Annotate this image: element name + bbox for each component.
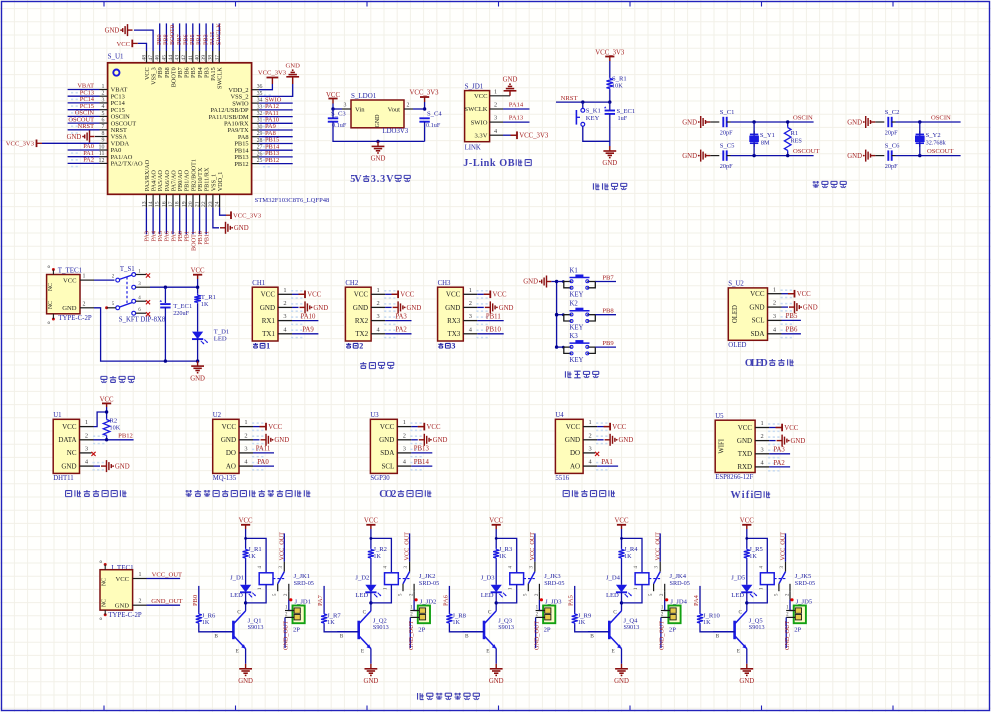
svg-text:2: 2 [773, 300, 776, 307]
svg-text:3: 3 [244, 446, 247, 453]
svg-text:S_C5: S_C5 [720, 142, 735, 149]
svg-text:B: B [340, 633, 344, 639]
svg-text:J_R2: J_R2 [373, 546, 387, 553]
svg-text:TX3: TX3 [447, 330, 460, 338]
svg-text:2: 2 [588, 432, 591, 439]
svg-text:PA0: PA0 [257, 459, 269, 466]
svg-text:PA9: PA9 [302, 327, 314, 334]
svg-text:1: 1 [494, 88, 497, 95]
svg-text:PB12: PB12 [265, 157, 279, 164]
svg-text:VCC_3V3: VCC_3V3 [233, 213, 262, 220]
svg-text:GND_OUT: GND_OUT [408, 621, 415, 650]
svg-text:VCC: VCC [615, 518, 629, 525]
svg-text:SRD-05: SRD-05 [294, 580, 314, 587]
svg-text:VCC: VCC [489, 518, 503, 525]
svg-text:VCC: VCC [566, 423, 581, 431]
svg-text:3: 3 [469, 313, 472, 320]
svg-text:WIFI: WIFI [719, 438, 726, 453]
svg-text:OLED: OLED [745, 358, 768, 369]
svg-text:VDD_1: VDD_1 [217, 172, 224, 192]
svg-text:GND: GND [364, 678, 379, 685]
svg-text:TX2: TX2 [355, 330, 368, 338]
svg-text:20pF: 20pF [720, 130, 733, 137]
svg-text:GND: GND [499, 305, 514, 312]
svg-text:J_JK1: J_JK1 [294, 573, 311, 580]
svg-text:1: 1 [773, 286, 776, 293]
svg-text:RXD: RXD [737, 463, 752, 471]
svg-text:U5: U5 [715, 413, 724, 420]
svg-text:GND_OUT: GND_OUT [784, 621, 791, 650]
svg-text:3.3V: 3.3V [474, 133, 487, 140]
svg-text:10K: 10K [612, 83, 623, 90]
svg-text:LINK: LINK [465, 145, 481, 152]
svg-text:1: 1 [244, 419, 247, 426]
svg-text:PB0: PB0 [192, 595, 199, 606]
svg-text:OLED: OLED [732, 305, 739, 323]
svg-text:20pF: 20pF [720, 163, 733, 170]
svg-text:K3: K3 [570, 333, 579, 340]
svg-text:VCC_3V3: VCC_3V3 [519, 133, 549, 140]
svg-text:S_C2: S_C2 [885, 109, 900, 116]
svg-text:2: 2 [494, 102, 497, 109]
svg-text:GND: GND [619, 437, 634, 444]
svg-text:VCC_3V3: VCC_3V3 [6, 141, 35, 148]
svg-text:PA1: PA1 [601, 459, 612, 466]
svg-text:S_C6: S_C6 [885, 142, 900, 149]
svg-text:ESP8266-12F: ESP8266-12F [715, 474, 753, 481]
svg-text:S_U2: S_U2 [728, 281, 744, 288]
svg-text:T_D1: T_D1 [214, 328, 229, 335]
svg-text:0.1uF: 0.1uF [332, 122, 347, 129]
svg-text:B: B [465, 633, 469, 639]
svg-text:1K: 1K [452, 619, 460, 626]
svg-text:PA2: PA2 [395, 327, 407, 334]
svg-text:1K: 1K [327, 619, 335, 626]
svg-text:GND: GND [274, 437, 289, 444]
svg-text:S_JD1: S_JD1 [465, 83, 484, 91]
svg-text:GND: GND [61, 462, 76, 470]
svg-text:GND: GND [379, 436, 394, 444]
svg-text:LED: LED [355, 592, 368, 599]
svg-text:SCL: SCL [752, 317, 765, 325]
svg-text:J_JD5: J_JD5 [796, 598, 813, 605]
svg-text:K1: K1 [570, 268, 578, 275]
svg-text:VCC: VCC [380, 423, 395, 431]
svg-text:VCC_3V3: VCC_3V3 [409, 90, 439, 97]
svg-text:VCC: VCC [400, 292, 414, 299]
svg-text:J_R4: J_R4 [624, 546, 638, 553]
svg-text:C: C [363, 610, 367, 616]
svg-text:GND: GND [105, 28, 120, 35]
svg-text:OSCOUT: OSCOUT [927, 148, 953, 155]
svg-text:Vin: Vin [355, 107, 365, 114]
svg-text:Wifi: Wifi [731, 490, 754, 501]
svg-text:GND: GND [602, 160, 617, 167]
svg-text:1K: 1K [201, 301, 209, 308]
svg-text:PA10: PA10 [301, 313, 316, 320]
svg-text:VCC: VCC [307, 292, 321, 299]
svg-text:DO: DO [570, 449, 580, 457]
svg-text:PB13: PB13 [414, 446, 430, 453]
svg-text:2P: 2P [293, 626, 300, 633]
svg-text:PB6: PB6 [786, 327, 798, 334]
svg-text:1: 1 [403, 419, 406, 426]
svg-text:PB11: PB11 [486, 313, 501, 320]
svg-text:GND: GND [565, 436, 580, 444]
svg-text:GND: GND [847, 153, 862, 160]
svg-text:NC: NC [102, 599, 108, 607]
svg-text:3: 3 [760, 446, 763, 453]
svg-text:U3: U3 [370, 412, 379, 419]
svg-text:1K: 1K [248, 553, 256, 560]
svg-text:VCC: VCC [261, 291, 276, 299]
svg-text:CH1: CH1 [252, 280, 265, 287]
svg-text:3: 3 [773, 313, 776, 320]
svg-text:B: B [590, 633, 594, 639]
svg-text:OSCIN: OSCIN [793, 115, 813, 122]
svg-text:GND: GND [313, 305, 328, 312]
svg-text:GND: GND [749, 303, 764, 311]
svg-text:GND: GND [115, 603, 130, 610]
svg-text:NC: NC [48, 283, 54, 291]
svg-text:J_JK2: J_JK2 [419, 573, 436, 580]
svg-text:GND: GND [803, 304, 818, 311]
svg-text:PA11: PA11 [256, 446, 271, 453]
svg-text:J_JD4: J_JD4 [670, 598, 687, 605]
svg-text:PB10: PB10 [486, 327, 502, 334]
svg-text:PB12: PB12 [234, 161, 248, 168]
svg-text:5V: 5V [350, 174, 362, 185]
svg-text:PB8: PB8 [602, 308, 614, 315]
svg-text:NRST: NRST [78, 123, 94, 130]
svg-text:3: 3 [376, 313, 379, 320]
svg-text:VCC: VCC [62, 423, 77, 431]
svg-text:C: C [237, 610, 241, 616]
svg-text:PA2/TX/AO: PA2/TX/AO [111, 161, 143, 168]
svg-text:PA4: PA4 [693, 594, 700, 606]
svg-text:VCC_OUT: VCC_OUT [152, 571, 182, 578]
svg-text:VCC_3V3: VCC_3V3 [595, 50, 625, 57]
svg-text:J_JD2: J_JD2 [420, 598, 437, 605]
svg-text:1K: 1K [703, 619, 711, 626]
svg-text:GND: GND [375, 114, 381, 128]
svg-text:SRD-05: SRD-05 [544, 580, 564, 587]
svg-text:1: 1 [139, 572, 142, 578]
svg-text:GND: GND [682, 119, 697, 126]
svg-text:PA6: PA6 [442, 595, 449, 606]
svg-text:1K: 1K [624, 553, 632, 560]
svg-text:2P: 2P [794, 626, 801, 633]
svg-text:LDO3V3: LDO3V3 [383, 128, 409, 135]
svg-text:S9013: S9013 [749, 624, 765, 631]
svg-text:1K: 1K [749, 553, 757, 560]
svg-text:1: 1 [83, 274, 86, 280]
svg-text:NC: NC [102, 578, 108, 586]
svg-text:2: 2 [407, 103, 410, 109]
svg-text:AO: AO [570, 462, 580, 470]
svg-text:2: 2 [359, 342, 363, 351]
svg-text:GND: GND [433, 437, 448, 444]
svg-text:GND: GND [407, 305, 422, 312]
svg-text:RES: RES [791, 138, 803, 145]
svg-text:GND_OUT: GND_OUT [151, 598, 182, 605]
svg-text:1K: 1K [202, 619, 210, 626]
svg-text:S_KFT DIP-8X8: S_KFT DIP-8X8 [119, 317, 166, 324]
svg-text:OSCOUT: OSCOUT [793, 148, 819, 155]
svg-text:LED: LED [481, 592, 494, 599]
svg-text:RX1: RX1 [262, 317, 276, 325]
svg-text:VCC_3V3: VCC_3V3 [258, 70, 287, 77]
svg-text:AO: AO [226, 462, 236, 470]
svg-text:VCC: VCC [612, 424, 626, 431]
svg-text:U4: U4 [555, 412, 564, 419]
svg-text:S9013: S9013 [248, 624, 264, 631]
svg-text:PA2: PA2 [83, 157, 94, 164]
svg-text:VCC: VCC [364, 518, 378, 525]
svg-text:VCC: VCC [738, 424, 753, 432]
svg-text:RX3: RX3 [447, 317, 461, 325]
svg-text:S9013: S9013 [498, 624, 514, 631]
svg-text:3: 3 [85, 446, 88, 453]
svg-text:220uF: 220uF [173, 310, 189, 317]
svg-text:SDA: SDA [380, 449, 394, 457]
svg-text:SCL: SCL [381, 462, 394, 470]
svg-text:0.1uF: 0.1uF [426, 122, 441, 129]
svg-text:GND: GND [190, 375, 205, 382]
svg-text:VCC: VCC [115, 576, 129, 583]
svg-text:R2: R2 [110, 418, 118, 425]
svg-text:S_R1: S_R1 [612, 76, 627, 83]
svg-text:J-Link OB: J-Link OB [463, 158, 515, 169]
svg-text:PB9: PB9 [602, 340, 614, 347]
svg-text:1uF: 1uF [618, 115, 628, 122]
svg-text:2P: 2P [418, 626, 425, 633]
svg-text:SDA: SDA [750, 330, 764, 338]
svg-text:MQ-135: MQ-135 [213, 475, 237, 482]
svg-text:1: 1 [760, 420, 763, 427]
svg-text:NC: NC [48, 301, 54, 309]
svg-text:OLED: OLED [728, 342, 746, 349]
svg-text:DHT11: DHT11 [53, 475, 74, 482]
svg-text:S_K1: S_K1 [586, 108, 601, 115]
svg-text:2: 2 [469, 300, 472, 307]
svg-text:2: 2 [85, 432, 88, 439]
svg-text:2: 2 [83, 301, 86, 307]
svg-text:VCC: VCC [354, 291, 369, 299]
svg-text:VCC: VCC [797, 291, 811, 298]
svg-text:DO: DO [226, 449, 236, 457]
svg-text:B: B [716, 633, 720, 639]
svg-text:1: 1 [283, 287, 286, 294]
svg-text:OSCIN: OSCIN [931, 115, 951, 122]
svg-text:J_R1: J_R1 [248, 546, 262, 553]
svg-text:GND: GND [614, 678, 629, 685]
svg-text:GND: GND [682, 153, 697, 160]
svg-text:S_C1: S_C1 [720, 109, 735, 116]
svg-text:S_C4: S_C4 [427, 111, 442, 118]
svg-text:GND: GND [353, 304, 368, 312]
svg-text:SRD-05: SRD-05 [670, 580, 690, 587]
svg-text:C: C [488, 610, 492, 616]
svg-text:SRD-05: SRD-05 [795, 580, 815, 587]
svg-text:J_D4: J_D4 [606, 575, 621, 582]
svg-text:2: 2 [244, 432, 247, 439]
svg-text:VCC: VCC [116, 41, 130, 48]
svg-text:S9013: S9013 [373, 624, 389, 631]
svg-text:2: 2 [283, 300, 286, 307]
svg-text:GND: GND [286, 62, 301, 69]
svg-text:S_Y1: S_Y1 [760, 132, 775, 139]
svg-text:CO2: CO2 [379, 489, 396, 500]
svg-text:GND: GND [739, 678, 754, 685]
svg-text:GND: GND [67, 134, 82, 141]
svg-text:STM32F103C8T6_LQFP48: STM32F103C8T6_LQFP48 [255, 197, 330, 204]
svg-text:20pF: 20pF [885, 130, 898, 137]
svg-text:3: 3 [451, 342, 455, 351]
svg-text:1K: 1K [373, 553, 381, 560]
svg-text:TYPE-C-2P: TYPE-C-2P [108, 612, 141, 619]
svg-text:VCC: VCC [750, 290, 765, 298]
svg-text:J_D3: J_D3 [481, 575, 496, 582]
svg-text:VCC: VCC [268, 424, 282, 431]
svg-text:3: 3 [283, 313, 286, 320]
svg-text:GND: GND [115, 463, 130, 470]
svg-text:VCC: VCC [222, 423, 237, 431]
svg-text:1K: 1K [578, 619, 586, 626]
svg-text:GND: GND [371, 156, 386, 163]
svg-text:PB14: PB14 [414, 459, 430, 466]
svg-text:2P: 2P [544, 626, 551, 633]
svg-text:GND: GND [260, 304, 275, 312]
svg-text:1: 1 [469, 287, 472, 294]
svg-text:PA3: PA3 [395, 313, 407, 320]
svg-text:C: C [738, 610, 742, 616]
svg-text:VCC: VCC [427, 424, 441, 431]
svg-text:J_JK3: J_JK3 [544, 573, 561, 580]
svg-text:LED: LED [230, 592, 243, 599]
svg-text:GND: GND [737, 437, 752, 445]
svg-text:S9013: S9013 [624, 624, 640, 631]
svg-text:GND: GND [523, 279, 538, 286]
svg-text:GND: GND [62, 305, 77, 312]
svg-text:PA14: PA14 [509, 102, 524, 109]
svg-text:PA2: PA2 [773, 460, 785, 467]
svg-text:S_LDO1: S_LDO1 [351, 92, 377, 100]
svg-text:TX1: TX1 [262, 330, 275, 338]
svg-text:GND_OUT: GND_OUT [283, 621, 290, 650]
svg-text:J_JD1: J_JD1 [295, 598, 312, 605]
svg-text:U2: U2 [213, 412, 222, 419]
svg-text:CH3: CH3 [438, 280, 451, 287]
svg-text:LED: LED [731, 592, 744, 599]
svg-text:VCC: VCC [191, 268, 205, 275]
svg-text:5516: 5516 [555, 475, 569, 482]
svg-text:8M: 8M [761, 140, 770, 147]
svg-text:CH2: CH2 [345, 280, 358, 287]
svg-text:J_JK4: J_JK4 [670, 573, 687, 580]
svg-text:NC: NC [67, 449, 77, 457]
svg-text:SWIO: SWIO [471, 119, 488, 126]
svg-text:TYPE-C-2P: TYPE-C-2P [58, 315, 91, 322]
svg-text:T_TEC1: T_TEC1 [58, 267, 83, 275]
svg-text:VCC: VCC [63, 278, 77, 285]
svg-text:2: 2 [760, 433, 763, 440]
svg-text:GND: GND [503, 77, 518, 84]
svg-text:K2: K2 [570, 301, 579, 308]
svg-text:GND: GND [238, 678, 253, 685]
svg-text:T_R1: T_R1 [201, 294, 216, 301]
svg-text:S_U1: S_U1 [108, 52, 124, 60]
svg-text:J_D1: J_D1 [230, 575, 244, 582]
svg-text:KEY: KEY [570, 292, 584, 299]
svg-text:3: 3 [494, 115, 497, 122]
svg-text:J_D2: J_D2 [355, 575, 369, 582]
svg-text:VCC: VCC [239, 518, 253, 525]
svg-text:Vout: Vout [388, 107, 401, 114]
svg-text:SWCLK: SWCLK [216, 23, 223, 45]
svg-text:2: 2 [139, 599, 142, 605]
svg-text:3.3V: 3.3V [371, 174, 394, 185]
svg-text:TXD: TXD [738, 450, 752, 458]
svg-text:3: 3 [403, 446, 406, 453]
svg-text:GND: GND [791, 438, 806, 445]
svg-text:B: B [214, 633, 218, 639]
svg-text:1K: 1K [499, 553, 507, 560]
svg-text:32.768k: 32.768k [926, 140, 947, 147]
svg-text:LED: LED [214, 335, 227, 342]
svg-text:1: 1 [376, 287, 379, 294]
svg-text:20pF: 20pF [885, 163, 898, 170]
svg-text:PA7: PA7 [317, 594, 324, 606]
svg-text:GND_OUT: GND_OUT [659, 621, 666, 650]
svg-text:J_D5: J_D5 [731, 575, 746, 582]
svg-text:VCC: VCC [740, 518, 754, 525]
svg-text:PA3: PA3 [773, 447, 785, 454]
svg-text:GND: GND [489, 678, 504, 685]
svg-text:3: 3 [344, 103, 347, 109]
svg-text:1: 1 [85, 419, 88, 426]
svg-text:R1: R1 [791, 130, 799, 137]
svg-text:U1: U1 [53, 412, 61, 419]
svg-text:PA13: PA13 [509, 115, 524, 122]
svg-text:S_EC1: S_EC1 [617, 108, 636, 115]
svg-text:NRST: NRST [561, 95, 578, 102]
svg-text:J_JK5: J_JK5 [795, 573, 812, 580]
svg-text:J_R3: J_R3 [499, 546, 513, 553]
svg-text:PA5: PA5 [568, 595, 575, 606]
svg-text:1: 1 [266, 342, 270, 351]
svg-text:VCC: VCC [493, 292, 507, 299]
svg-text:KEY: KEY [570, 325, 584, 332]
svg-text:C: C [613, 610, 617, 616]
svg-text:VCC: VCC [784, 425, 798, 432]
svg-text:VCC: VCC [100, 396, 114, 403]
svg-text:2: 2 [403, 432, 406, 439]
svg-text:GND: GND [234, 225, 249, 232]
svg-text:2P: 2P [669, 626, 676, 633]
svg-text:GND_OUT: GND_OUT [533, 621, 540, 650]
svg-text:GND: GND [847, 119, 862, 126]
svg-text:VCC: VCC [474, 93, 488, 100]
svg-text:PB11: PB11 [204, 231, 211, 245]
svg-text:RX2: RX2 [355, 317, 369, 325]
svg-text:J_JD3: J_JD3 [545, 598, 562, 605]
svg-text:SRD-05: SRD-05 [419, 580, 439, 587]
svg-text:LED: LED [606, 592, 619, 599]
svg-text:4: 4 [494, 128, 497, 135]
svg-text:S_Y2: S_Y2 [926, 132, 941, 139]
svg-text:10K: 10K [110, 425, 121, 432]
